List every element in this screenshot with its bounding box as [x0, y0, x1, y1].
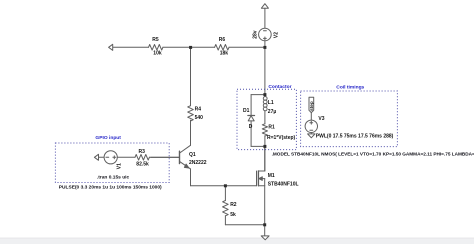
- svg-text:28v: 28v: [253, 30, 259, 39]
- svg-text:PWL(0 17.5 75ms 17.5 76ms 288): PWL(0 17.5 75ms 17.5 76ms 288): [316, 133, 394, 139]
- svg-text:PULSE(0 3.3 20ms 1u 1u 100ms 1: PULSE(0 3.3 20ms 1u 1u 100ms 150ms 1000): [59, 185, 162, 191]
- svg-text:5k: 5k: [230, 212, 236, 218]
- svg-text:STB40NF10L: STB40NF10L: [268, 182, 299, 188]
- svg-text:V2: V2: [274, 32, 280, 38]
- svg-text:V3: V3: [318, 116, 324, 122]
- svg-text:M1: M1: [268, 173, 275, 179]
- svg-text:10k: 10k: [153, 51, 162, 57]
- svg-text:R3: R3: [139, 149, 146, 155]
- svg-text:step: step: [309, 101, 314, 111]
- svg-text:R=1*V(step): R=1*V(step): [267, 135, 296, 141]
- svg-text:540: 540: [195, 115, 204, 121]
- svg-text:R2: R2: [230, 202, 237, 208]
- svg-text:R6: R6: [219, 37, 226, 43]
- svg-text:L1: L1: [268, 100, 274, 106]
- svg-text:R5: R5: [152, 37, 159, 43]
- svg-text:.MODEL STB40NF10L NMOS( LEVEL=: .MODEL STB40NF10L NMOS( LEVEL=1 VTO=1.70…: [272, 152, 474, 157]
- svg-text:D1: D1: [243, 108, 250, 114]
- svg-text:82.5k: 82.5k: [136, 162, 149, 168]
- svg-text:R1: R1: [268, 125, 275, 131]
- svg-text:Q1: Q1: [189, 152, 196, 158]
- svg-text:27µ: 27µ: [268, 109, 277, 115]
- svg-text:GPIO input: GPIO input: [95, 135, 121, 141]
- svg-text:Contactor: Contactor: [268, 84, 291, 90]
- svg-text:R4: R4: [195, 107, 202, 113]
- svg-text:Coil timings: Coil timings: [336, 84, 364, 90]
- svg-text:D: D: [249, 124, 253, 130]
- svg-text:18k: 18k: [220, 51, 229, 57]
- svg-text:V1: V1: [116, 163, 122, 169]
- svg-text:2N2222: 2N2222: [189, 160, 207, 166]
- svg-text:.tran 0.15s uic: .tran 0.15s uic: [97, 174, 130, 180]
